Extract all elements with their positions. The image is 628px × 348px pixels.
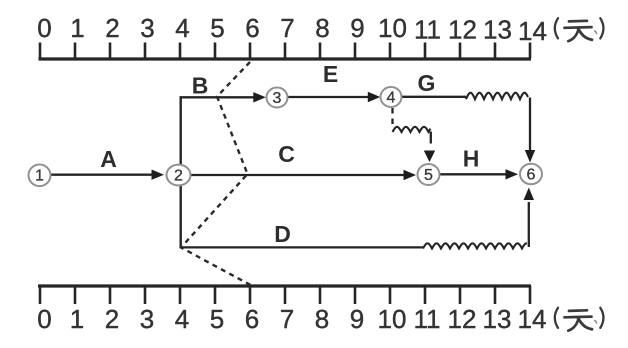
activity H arrow (node 5 to node 6) (440, 173, 506, 175)
svg-text:9: 9 (350, 13, 364, 43)
activity G wavy float line (466, 93, 528, 99)
svg-text:E: E (323, 61, 338, 87)
top time scale baseline (39, 57, 532, 60)
svg-text:13: 13 (483, 15, 512, 45)
connector vertical segment (430, 132, 432, 144)
node 6 (520, 164, 542, 184)
svg-text:4: 4 (175, 304, 189, 334)
svg-text:8: 8 (315, 13, 329, 43)
svg-text:5: 5 (210, 304, 224, 334)
svg-text:6: 6 (527, 166, 536, 183)
svg-text:1: 1 (70, 304, 84, 334)
activity A arrow (node 1 to node 2) (51, 174, 152, 176)
svg-text:4: 4 (175, 13, 189, 43)
top time scale numbers 0-14 (37, 13, 547, 46)
svg-text:9: 9 (350, 304, 364, 334)
activity G vertical drop into node 6 (529, 98, 531, 151)
bottom time scale numbers 0-14 (37, 304, 546, 334)
activity D vertical rise into node 6 (528, 202, 530, 247)
activity D wavy float line (423, 243, 527, 248)
svg-text:D: D (274, 221, 291, 247)
svg-text:A: A (100, 146, 117, 172)
svg-text:2: 2 (105, 13, 119, 43)
svg-text:14: 14 (518, 16, 547, 46)
svg-text:4: 4 (387, 89, 396, 106)
svg-text:3: 3 (140, 304, 154, 334)
svg-text:3: 3 (273, 90, 282, 107)
bottom time scale baseline (38, 284, 531, 287)
activity D horizontal line (181, 246, 423, 248)
bottom scale unit label (tian/days) (555, 308, 604, 331)
svg-text:5: 5 (424, 167, 433, 184)
svg-text:11: 11 (414, 15, 441, 45)
activity D path: down from node 2 (179, 186, 181, 247)
svg-text:2: 2 (174, 167, 183, 184)
svg-text:2: 2 (105, 304, 119, 334)
svg-text:12: 12 (448, 15, 477, 45)
svg-text:6: 6 (245, 304, 259, 334)
bottom time scale tick marks 0-14 (40, 286, 530, 304)
node 4 (381, 87, 402, 107)
activity B arrow (to node 3) (180, 96, 254, 98)
svg-text:3: 3 (140, 13, 154, 43)
activity G arrow with free-float wavy section, down into node 6 (402, 96, 466, 98)
activity E arrow (node 3 to node 4) (288, 96, 368, 98)
svg-text:14: 14 (518, 304, 547, 334)
svg-text:11: 11 (414, 304, 441, 334)
svg-text:10: 10 (378, 304, 407, 334)
svg-text:7: 7 (280, 304, 294, 334)
top scale unit label (tian/days) (555, 18, 604, 41)
svg-text:13: 13 (483, 304, 512, 334)
top time scale tick marks 0-14 (40, 43, 530, 59)
svg-text:G: G (418, 70, 436, 96)
dashed projection zigzag line (day 6 markers) (181, 62, 251, 285)
connector wavy float line (393, 127, 431, 132)
node 2 (167, 165, 191, 186)
svg-text:0: 0 (37, 13, 51, 43)
svg-text:C: C (278, 141, 295, 167)
node 1 (29, 165, 51, 187)
svg-text:6: 6 (245, 13, 259, 43)
svg-text:7: 7 (280, 13, 294, 43)
activity C arrow (node 2 to node 5) (190, 174, 404, 176)
dashed free-float connector from node 4 down (391, 108, 393, 127)
svg-text:B: B (192, 73, 209, 99)
connector arrowhead into node 5 (424, 151, 435, 163)
svg-text:12: 12 (448, 304, 477, 334)
svg-text:5: 5 (210, 13, 224, 43)
svg-text:0: 0 (37, 304, 51, 334)
svg-text:10: 10 (378, 13, 407, 43)
wire from node 2 up to activity B start (179, 96, 181, 165)
svg-text:1: 1 (70, 13, 84, 43)
svg-text:H: H (463, 146, 480, 172)
node 5 (418, 164, 440, 185)
node 3 (267, 88, 288, 108)
svg-text:8: 8 (315, 304, 329, 334)
svg-text:1: 1 (35, 168, 44, 185)
